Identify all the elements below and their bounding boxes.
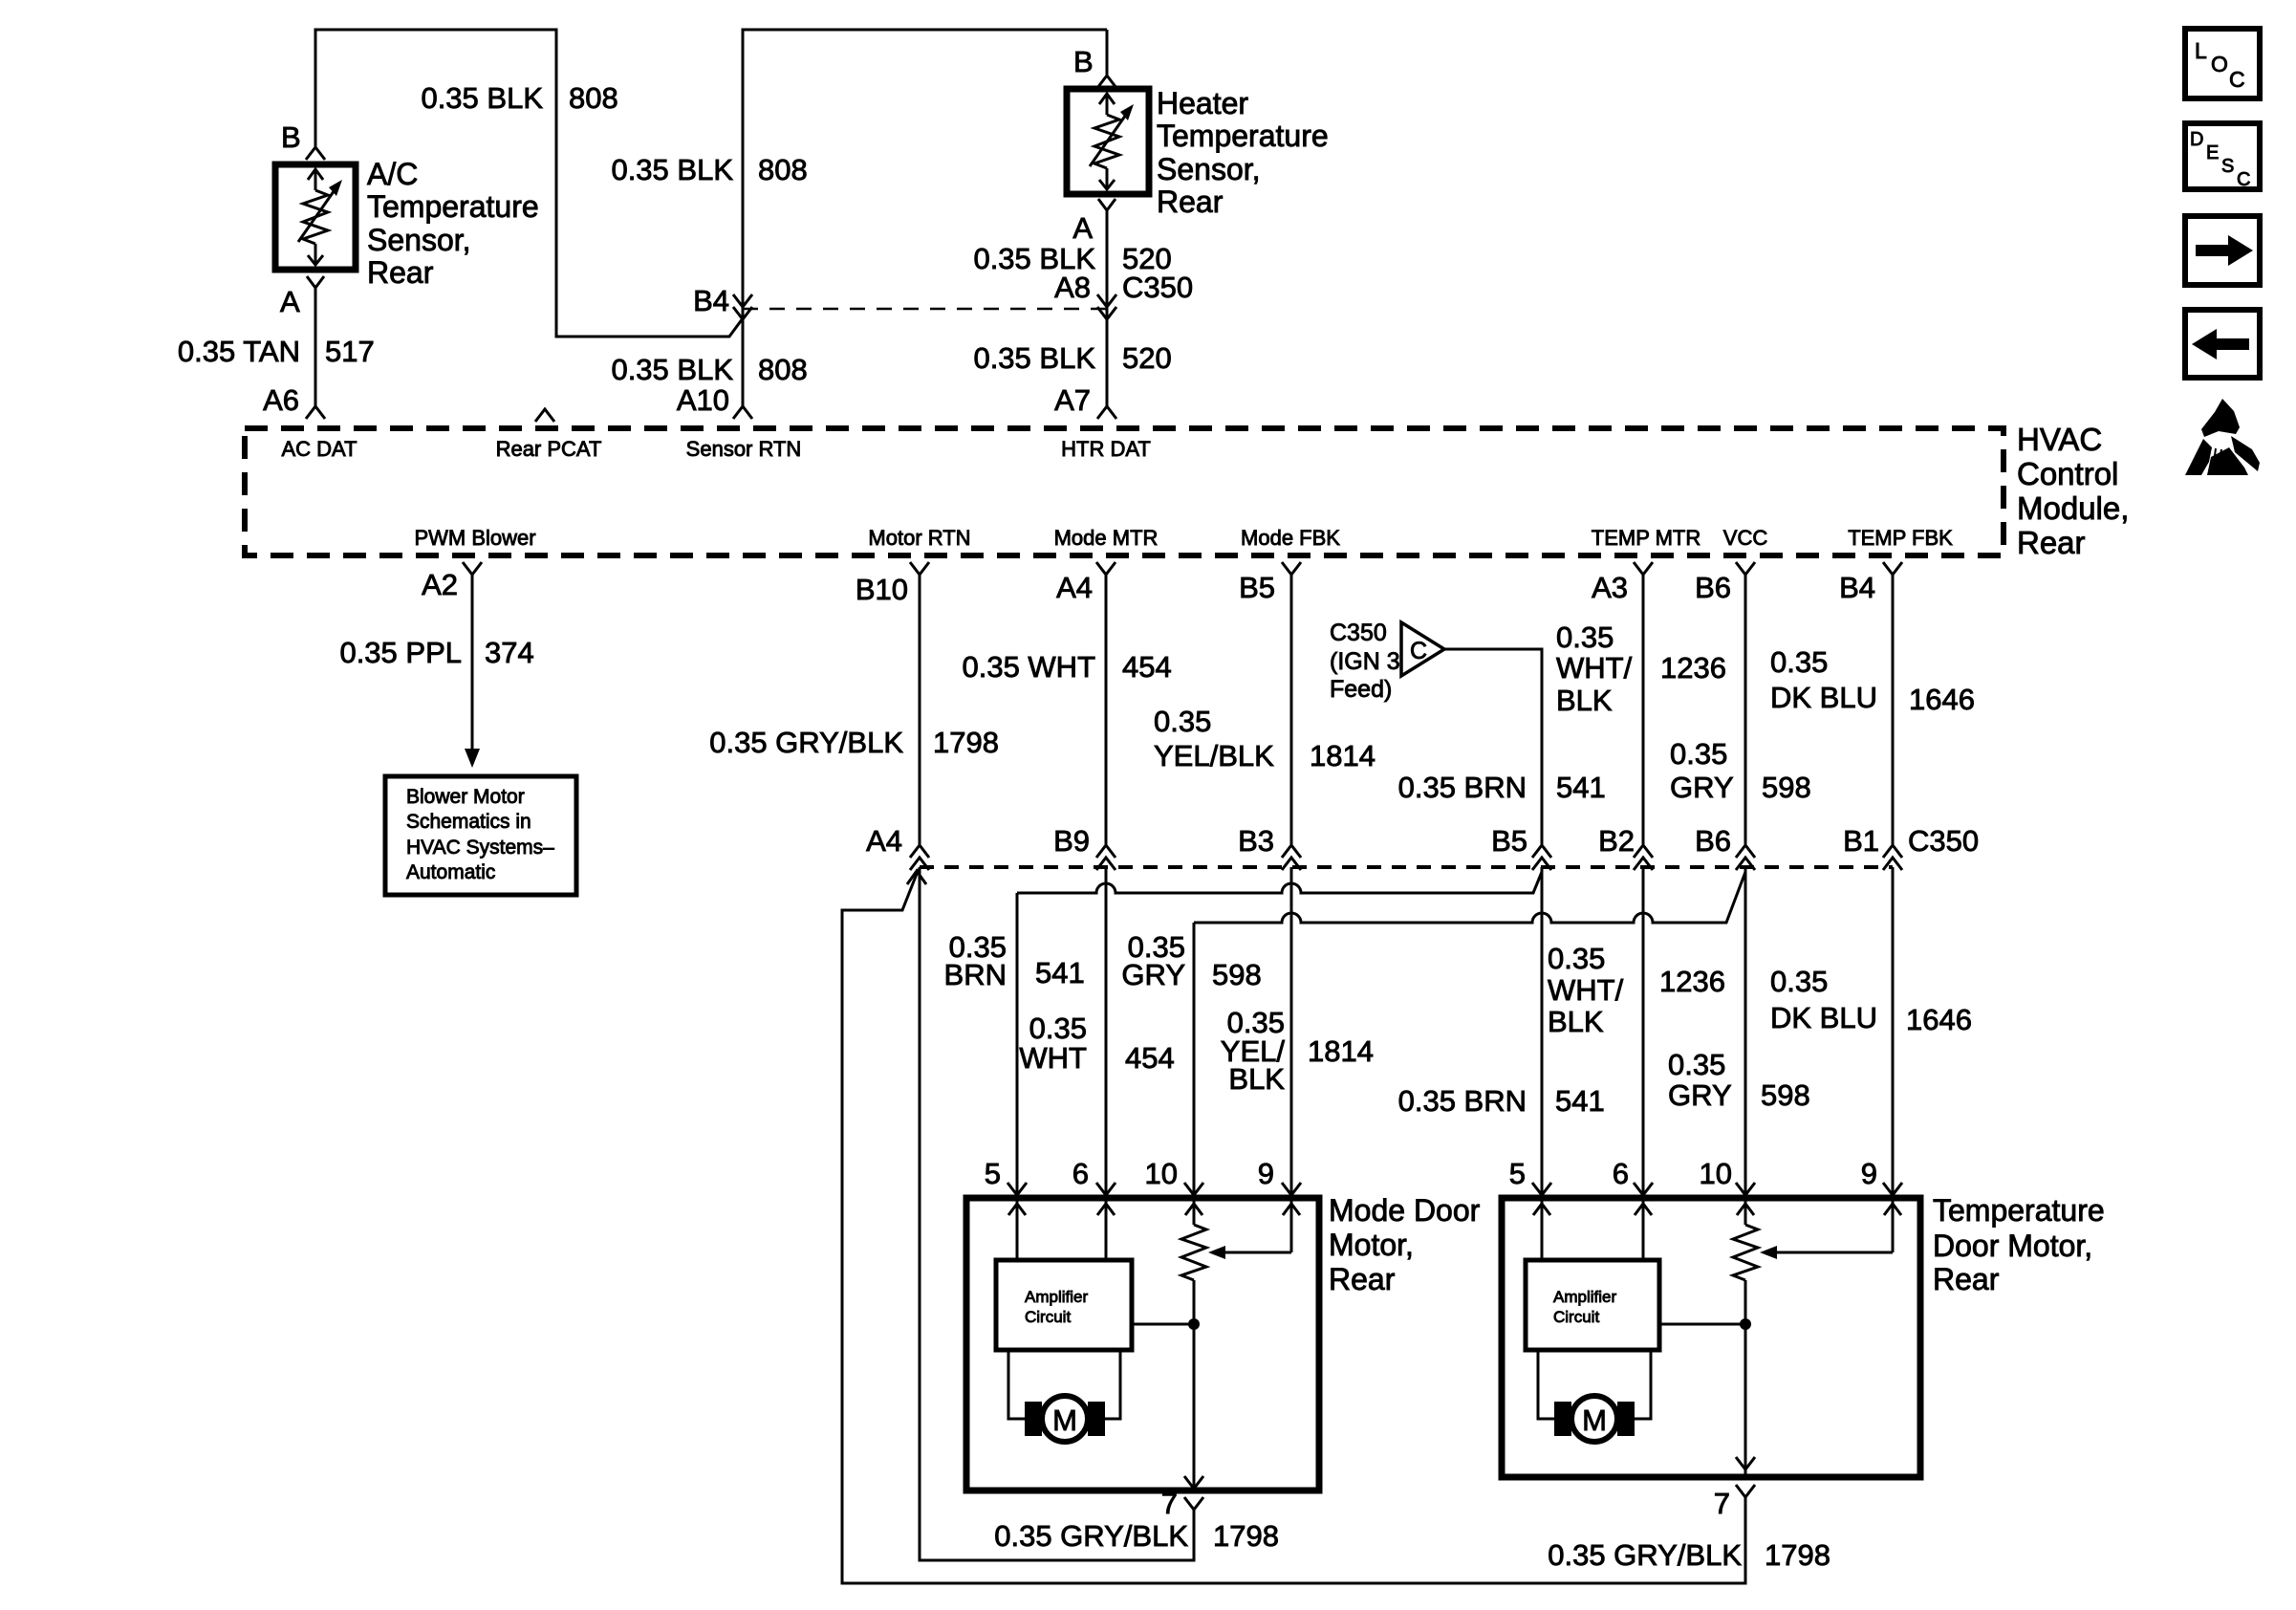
svg-text:10: 10: [1145, 1157, 1178, 1190]
svg-text:A: A: [1072, 211, 1093, 245]
connector C350 dashed line (lower row): [920, 865, 1893, 869]
svg-text:Rear: Rear: [1933, 1262, 2000, 1296]
svg-text:9: 9: [1258, 1157, 1274, 1190]
A/C Temperature Sensor, Rear (thermistor): [275, 157, 539, 290]
svg-text:Rear: Rear: [1329, 1262, 1396, 1296]
svg-text:O: O: [2211, 52, 2228, 76]
svg-text:Rear: Rear: [367, 255, 434, 290]
Amplifier Circuit box, temperature door motor: [1526, 1260, 1659, 1350]
spare pin chevron above Rear PCAT: [535, 409, 554, 422]
svg-text:0.35: 0.35: [1670, 737, 1727, 771]
svg-text:598: 598: [1762, 771, 1811, 804]
svg-text:Temperature: Temperature: [1933, 1193, 2105, 1228]
wire 1798 GRY/BLK: Motor RTN B10 to connector C350 pin A4: [709, 575, 999, 844]
svg-text:0.35 GRY/BLK: 0.35 GRY/BLK: [709, 726, 903, 759]
module pin names, bottom row: [414, 526, 1953, 550]
connector C350 pin A4: [866, 824, 929, 870]
svg-text:Door Motor,: Door Motor,: [1933, 1229, 2092, 1263]
wire 1798 GRY/BLK: C350 A4 down the left side to mode door motor pin 7: [920, 867, 1279, 1560]
wiper arrow, temperature door motor (pin 9): [1760, 1201, 1901, 1259]
amplifier output to pot junction, mode door motor: [1132, 1318, 1200, 1330]
svg-text:Motor RTN: Motor RTN: [868, 526, 970, 550]
svg-text:520: 520: [1122, 341, 1172, 375]
svg-text:A6: A6: [263, 383, 299, 417]
svg-text:0.35 WHT: 0.35 WHT: [962, 650, 1095, 684]
svg-text:541: 541: [1556, 771, 1606, 804]
svg-text:C: C: [2237, 169, 2250, 190]
wire 541 BRN: bus down to mode door motor pin 5: [944, 893, 1085, 1195]
svg-text:0.35: 0.35: [1029, 1012, 1087, 1045]
svg-text:0.35 BLK: 0.35 BLK: [611, 153, 733, 186]
motor pin numbers, mode door motor: [985, 1157, 1274, 1190]
svg-text:Automatic: Automatic: [406, 861, 495, 883]
wire 374 PPL: PWM Blower to blower motor schematics arrow: [339, 575, 533, 768]
wire 808 BLK lower segment label and A10 terminal: [611, 353, 807, 419]
svg-text:Temperature: Temperature: [367, 189, 539, 224]
svg-text:Motor,: Motor,: [1329, 1228, 1414, 1262]
connector C350 pin B6: [1695, 824, 1755, 870]
svg-text:YEL/BLK: YEL/BLK: [1154, 739, 1274, 772]
wire 454 WHT: C350 B9 to mode door motor pin 6: [1019, 867, 1174, 1195]
svg-text:Rear: Rear: [1157, 185, 1224, 219]
wire 598 GRY: C350 B6 down to temperature door motor pin 10: [1668, 867, 1810, 1195]
svg-text:0.35: 0.35: [1668, 1048, 1725, 1081]
svg-text:1798: 1798: [1213, 1519, 1279, 1553]
svg-text:D: D: [2190, 129, 2203, 150]
svg-text:E: E: [2206, 142, 2219, 163]
svg-text:0.35 BLK: 0.35 BLK: [611, 353, 733, 386]
wire 1236 WHT/BLK: C350 B2 to temperature door motor pin 6: [1548, 867, 1725, 1195]
connector C350 pin B2: [1598, 824, 1653, 870]
motor pin numbers, temperature door motor: [1509, 1157, 1877, 1190]
motor M, mode door motor: [1008, 1350, 1120, 1442]
potentiometer, temperature door motor (pin 10 to pin 7): [1733, 1201, 1758, 1477]
previous-page arrow icon: [2185, 310, 2260, 378]
wire 1798 GRY/BLK branch: C350 A4 to temperature door motor pin 7: [842, 869, 1830, 1583]
svg-text:9: 9: [1861, 1157, 1877, 1190]
connector C350 pin B1: [1843, 824, 1979, 870]
svg-text:5: 5: [985, 1157, 1001, 1190]
svg-text:A/C: A/C: [367, 157, 418, 191]
svg-text:Circuit: Circuit: [1553, 1308, 1599, 1326]
svg-text:0.35: 0.35: [1548, 942, 1605, 975]
svg-text:Circuit: Circuit: [1025, 1308, 1071, 1326]
pin 7 terminal, temperature door motor: [1714, 1485, 1755, 1520]
module pin A2 terminal (PWM Blower): [422, 562, 482, 601]
svg-text:A2: A2: [422, 568, 458, 601]
svg-text:517: 517: [325, 335, 375, 368]
thin dashed connector line C350 (B4 to A8): [743, 308, 1107, 311]
svg-text:808: 808: [758, 153, 808, 186]
svg-text:0.35 BLK: 0.35 BLK: [421, 81, 543, 115]
ESD sensitive device symbol: [2185, 399, 2260, 475]
wire 520 BLK: heater sensor A to module HTR DAT pin A7: [973, 210, 1171, 406]
svg-text:B5: B5: [1491, 824, 1527, 858]
svg-text:Rear: Rear: [2017, 525, 2086, 560]
svg-text:Amplifier: Amplifier: [1553, 1288, 1616, 1306]
svg-text:WHT/: WHT/: [1548, 973, 1624, 1007]
wire 1646 DK BLU: TEMP FBK B4 to connector C350 pin B1: [1770, 575, 1975, 844]
wire 1814 YEL/BLK: Mode FBK B5 to connector C350 pin B3: [1154, 575, 1375, 844]
svg-text:A4: A4: [1056, 571, 1093, 604]
svg-text:5: 5: [1509, 1157, 1526, 1190]
svg-text:B3: B3: [1238, 824, 1274, 858]
svg-text:0.35: 0.35: [1556, 620, 1614, 654]
terminal B of A/C sensor: [281, 120, 325, 160]
svg-text:541: 541: [1555, 1084, 1605, 1118]
svg-text:BLK: BLK: [1228, 1062, 1285, 1096]
svg-text:C350: C350: [1330, 620, 1387, 646]
svg-text:598: 598: [1761, 1078, 1810, 1112]
wire 454 WHT: Mode MTR A4 to connector C350 pin B9: [962, 575, 1171, 844]
svg-text:L: L: [2195, 38, 2207, 63]
pin 7 terminal, mode door motor: [1161, 1487, 1203, 1520]
svg-text:S: S: [2221, 156, 2234, 177]
svg-text:TEMP MTR: TEMP MTR: [1592, 526, 1700, 550]
module pin B10 terminal (Motor RTN): [856, 562, 929, 606]
internal wires with arrows, temperature door motor pins 5,6: [1533, 1201, 1652, 1260]
module pin B6 terminal (VCC): [1695, 562, 1755, 604]
svg-text:B1: B1: [1843, 824, 1879, 858]
svg-text:Sensor,: Sensor,: [1157, 152, 1261, 186]
svg-text:Control: Control: [2017, 456, 2118, 491]
wire 520 BLK lower segment and A7 terminal: [973, 341, 1171, 419]
wire 808 BLK: heater sensor B up, left, down to Sensor RTN: [611, 30, 1107, 406]
svg-text:0.35 PPL: 0.35 PPL: [339, 636, 462, 669]
svg-text:Sensor,: Sensor,: [367, 223, 471, 257]
svg-text:HVAC Systems–: HVAC Systems–: [406, 837, 554, 859]
svg-text:B10: B10: [856, 573, 908, 606]
HVAC Control Module, Rear (dashed outline): [245, 422, 2129, 560]
svg-text:HTR DAT: HTR DAT: [1061, 437, 1151, 461]
C350 (IGN 3 Feed) source triangle: [1330, 620, 1444, 703]
svg-text:Amplifier: Amplifier: [1025, 1288, 1088, 1306]
svg-text:B4: B4: [693, 284, 729, 317]
terminal A of A/C sensor: [280, 276, 324, 318]
svg-text:M: M: [1582, 1403, 1607, 1437]
connector C350 pin B9: [1053, 824, 1116, 870]
terminal B of heater sensor: [1073, 45, 1116, 88]
svg-text:DK BLU: DK BLU: [1770, 1001, 1877, 1034]
svg-text:808: 808: [758, 353, 808, 386]
svg-text:598: 598: [1212, 958, 1262, 991]
svg-text:541: 541: [1035, 956, 1085, 990]
svg-text:Schematics in: Schematics in: [406, 811, 531, 833]
motor M, temperature door motor: [1538, 1350, 1651, 1442]
svg-text:DK BLU: DK BLU: [1770, 681, 1877, 714]
connector C350 pin B5: [1491, 824, 1551, 870]
module pin A4 terminal (Mode MTR): [1056, 562, 1116, 604]
svg-text:A8: A8: [1054, 271, 1091, 304]
svg-text:0.35 GRY/BLK: 0.35 GRY/BLK: [1548, 1538, 1742, 1572]
svg-text:B6: B6: [1695, 824, 1731, 858]
svg-text:B2: B2: [1598, 824, 1635, 858]
svg-text:A: A: [280, 285, 300, 318]
svg-text:Mode FBK: Mode FBK: [1241, 526, 1340, 550]
svg-text:GRY: GRY: [1670, 771, 1734, 804]
wire 1236 WHT/BLK: TEMP MTR A3 to connector C350 pin B2: [1556, 575, 1726, 844]
svg-text:0.35 GRY/BLK: 0.35 GRY/BLK: [994, 1519, 1188, 1553]
module pin A3 terminal (TEMP MTR): [1592, 562, 1653, 604]
svg-text:0.35 BRN: 0.35 BRN: [1398, 771, 1527, 804]
svg-text:BLK: BLK: [1548, 1005, 1604, 1038]
svg-text:0.35 BLK: 0.35 BLK: [973, 341, 1095, 375]
svg-text:WHT: WHT: [1019, 1041, 1087, 1075]
bus wire 598 GRY: C350 B6 to both motor pin 10 (with hops): [1194, 872, 1745, 923]
amplifier output to pot junction, temperature door motor: [1659, 1318, 1751, 1330]
LOC navigation icon: [2185, 29, 2260, 98]
svg-text:0.35: 0.35: [1770, 965, 1828, 998]
pin entry terminals, mode door motor: [1007, 1183, 1301, 1195]
svg-text:Mode Door: Mode Door: [1329, 1193, 1481, 1228]
svg-text:1236: 1236: [1660, 651, 1726, 685]
svg-text:Blower Motor: Blower Motor: [406, 786, 525, 808]
svg-text:BLK: BLK: [1556, 684, 1613, 717]
svg-text:M: M: [1052, 1403, 1077, 1437]
svg-text:B5: B5: [1239, 571, 1275, 604]
terminal A of heater sensor: [1072, 199, 1116, 245]
svg-text:B: B: [1073, 45, 1094, 78]
svg-text:VCC: VCC: [1723, 526, 1768, 550]
svg-text:C: C: [2229, 67, 2245, 92]
svg-text:7: 7: [1714, 1487, 1730, 1520]
svg-text:0.35 BRN: 0.35 BRN: [1398, 1084, 1527, 1118]
svg-text:454: 454: [1122, 650, 1172, 684]
svg-text:B9: B9: [1053, 824, 1090, 858]
Heater Temperature Sensor, Rear (thermistor): [1067, 86, 1329, 219]
svg-text:HVAC: HVAC: [2017, 422, 2102, 457]
svg-text:B4: B4: [1839, 571, 1875, 604]
svg-text:(IGN 3: (IGN 3: [1330, 648, 1400, 675]
svg-text:A7: A7: [1054, 383, 1091, 417]
wire 598 GRY: VCC B6 to connector C350 pin B6: [1670, 575, 1811, 844]
wire 598 GRY: bus down to mode door motor pin 10: [1121, 923, 1261, 1195]
next-page arrow icon: [2185, 216, 2260, 285]
wire 541 BRN: C350 B5 down to temperature door motor pin 5: [1398, 867, 1605, 1195]
svg-text:B6: B6: [1695, 571, 1731, 604]
svg-text:A3: A3: [1592, 571, 1628, 604]
module pin B4 terminal (TEMP FBK): [1839, 562, 1902, 604]
svg-text:Sensor RTN: Sensor RTN: [686, 437, 802, 461]
svg-text:A10: A10: [677, 383, 729, 417]
svg-text:454: 454: [1125, 1041, 1175, 1075]
svg-text:1236: 1236: [1659, 965, 1725, 998]
svg-text:A4: A4: [866, 824, 902, 858]
svg-text:GRY: GRY: [1121, 958, 1185, 991]
wire 541 BRN: IGN 3 feed to connector C350 pin B5: [1398, 649, 1606, 844]
svg-text:1814: 1814: [1308, 1034, 1374, 1068]
svg-text:10: 10: [1700, 1157, 1732, 1190]
svg-text:1798: 1798: [1765, 1538, 1830, 1572]
svg-text:7: 7: [1161, 1487, 1178, 1520]
internal wires with arrows, mode door motor pins 5,6: [1008, 1201, 1115, 1260]
svg-text:1814: 1814: [1310, 739, 1375, 772]
module pin B5 terminal (Mode FBK): [1239, 562, 1301, 604]
svg-text:6: 6: [1613, 1157, 1629, 1190]
svg-text:TEMP FBK: TEMP FBK: [1848, 526, 1953, 550]
svg-text:B: B: [281, 120, 301, 154]
wire 1646 DK BLU: C350 B1 to temperature door motor pin 9: [1770, 867, 1972, 1195]
wire 1814 YEL/BLK: C350 B3 to mode door motor pin 9: [1221, 867, 1374, 1195]
svg-text:Feed): Feed): [1330, 676, 1392, 703]
Blower Motor Schematics reference box: [385, 776, 576, 895]
module pin names, top row: [281, 437, 1150, 461]
pin entry terminals, temperature door motor: [1532, 1183, 1902, 1195]
svg-text:BRN: BRN: [944, 958, 1007, 991]
svg-text:C350: C350: [1122, 271, 1193, 304]
svg-text:Heater: Heater: [1157, 86, 1248, 120]
Mode Door Motor, Rear box: [966, 1193, 1481, 1490]
svg-text:1798: 1798: [933, 726, 999, 759]
svg-text:1646: 1646: [1909, 683, 1975, 716]
wire 808 BLK: A/C sensor B up and over to junction: [315, 30, 743, 337]
connector C350 pin A8 (in-line, HTR DAT wire): [1054, 271, 1193, 319]
svg-text:6: 6: [1072, 1157, 1089, 1190]
svg-text:C350: C350: [1908, 824, 1979, 858]
wire 517 TAN: A/C sensor A to module AC DAT pin A6: [178, 288, 375, 419]
Temperature Door Motor, Rear box: [1502, 1193, 2105, 1477]
wiper arrow, mode door motor (pin 9): [1208, 1201, 1300, 1259]
connector C350 pin B3: [1238, 824, 1301, 870]
svg-text:0.35: 0.35: [1770, 645, 1828, 679]
svg-text:PWM Blower: PWM Blower: [414, 526, 535, 550]
svg-text:808: 808: [569, 81, 618, 115]
svg-text:Module,: Module,: [2017, 490, 2129, 526]
svg-text:AC DAT: AC DAT: [281, 437, 357, 461]
bus wire 541 BRN: C350 B5 to both motor pin 5 (with hops): [1017, 872, 1542, 893]
svg-text:GRY: GRY: [1668, 1078, 1732, 1112]
svg-text:Mode MTR: Mode MTR: [1054, 526, 1159, 550]
DESC navigation icon: [2185, 123, 2260, 190]
potentiometer, mode door motor (pin 10 to pin 7): [1181, 1201, 1206, 1490]
connector C350 pin B4 (in-line, Sensor RTN wire): [693, 284, 752, 319]
svg-text:WHT/: WHT/: [1556, 651, 1633, 685]
svg-text:0.35: 0.35: [1154, 705, 1211, 738]
svg-text:C: C: [1410, 638, 1427, 664]
svg-text:1646: 1646: [1906, 1003, 1972, 1036]
Amplifier Circuit box, mode door motor: [996, 1260, 1132, 1350]
svg-text:0.35 TAN: 0.35 TAN: [178, 335, 300, 368]
svg-text:Temperature: Temperature: [1157, 119, 1329, 153]
svg-text:Rear PCAT: Rear PCAT: [496, 437, 602, 461]
svg-text:374: 374: [485, 636, 534, 669]
